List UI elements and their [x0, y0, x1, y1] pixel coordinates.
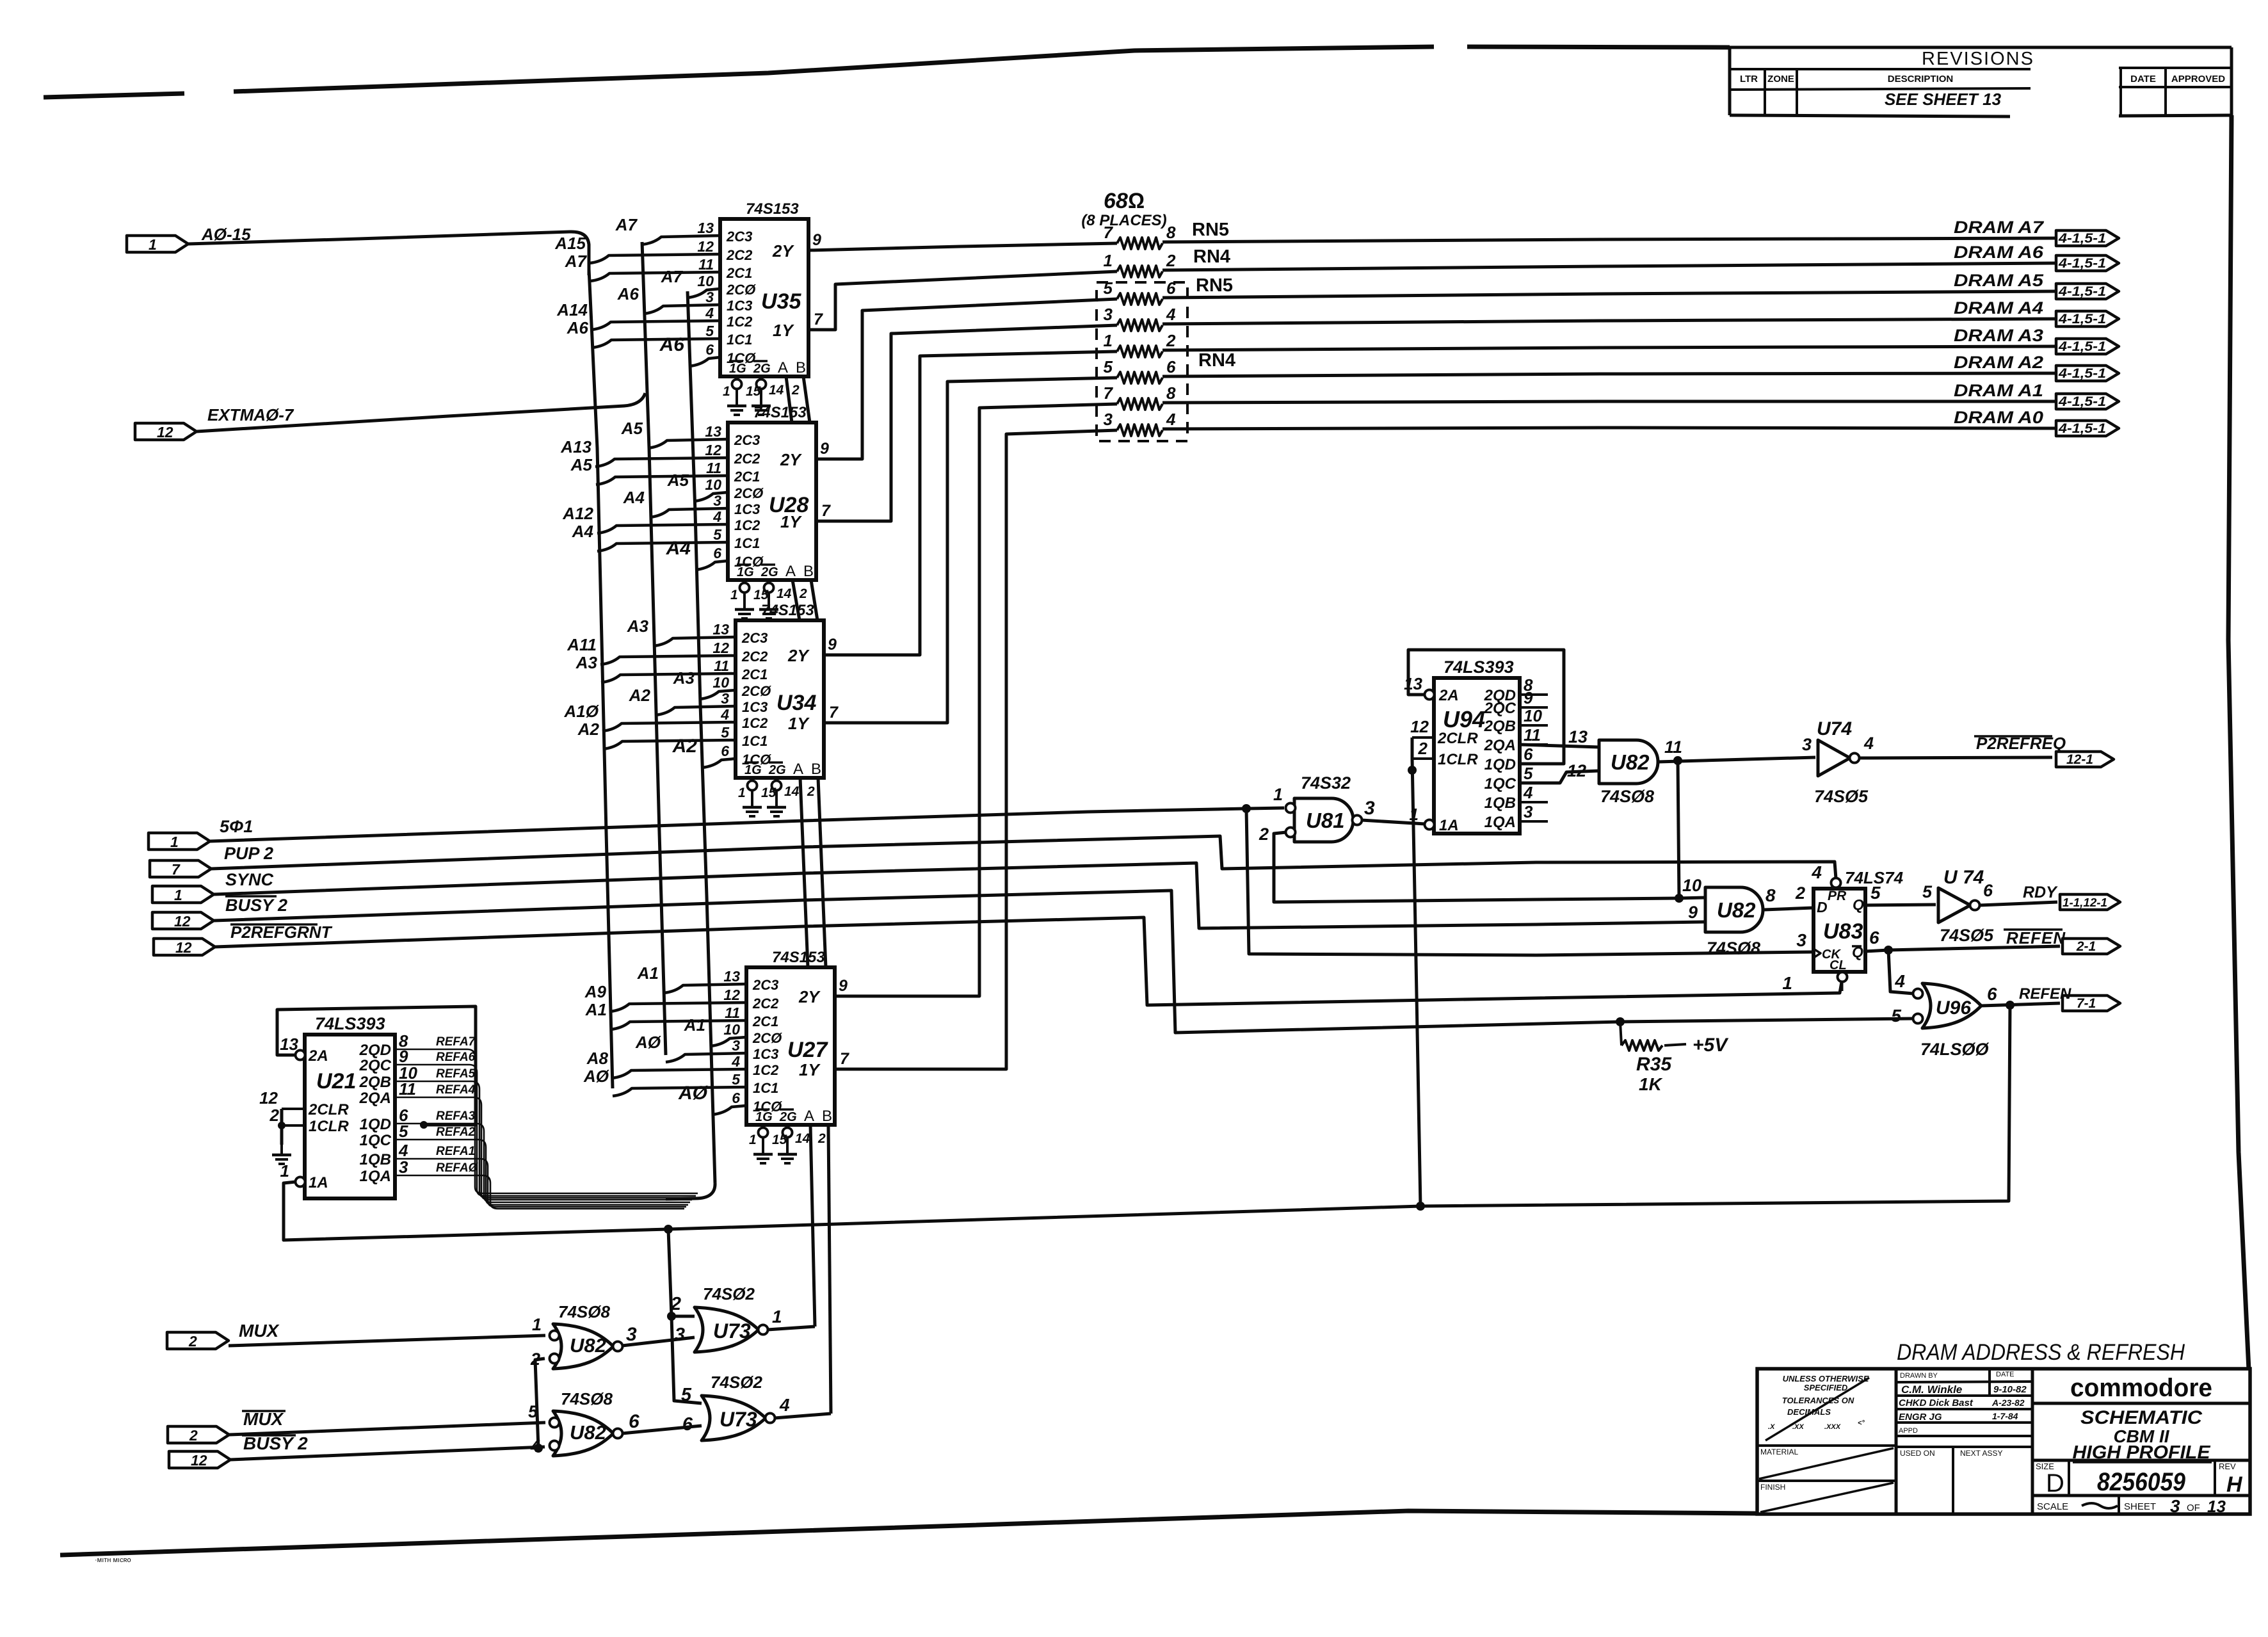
- svg-text:12: 12: [705, 442, 721, 458]
- wire MUXbar to U82 pin5: [229, 1423, 545, 1435]
- svg-text:B: B: [822, 1108, 832, 1125]
- svg-text:11: 11: [399, 1079, 416, 1099]
- svg-text:2C1: 2C1: [741, 666, 768, 682]
- svg-text:12: 12: [1410, 717, 1429, 736]
- svg-text:REFA1: REFA1: [436, 1145, 475, 1158]
- svg-text:3: 3: [675, 1325, 685, 1345]
- svg-text:A5: A5: [667, 471, 689, 490]
- U28 enable grounds: [743, 580, 746, 584]
- wire U74-2 out to RDY flag: [1980, 902, 2057, 905]
- wire mux output to RN row A6: [808, 271, 1117, 330]
- svg-text:MATERIAL: MATERIAL: [1760, 1447, 1798, 1456]
- svg-text:9: 9: [1524, 688, 1533, 707]
- connector BUSY2 input: [152, 912, 214, 929]
- svg-text:A9: A9: [584, 982, 607, 1001]
- svg-text:DRAM ADDRESS & REFRESH: DRAM ADDRESS & REFRESH: [1897, 1340, 2185, 1365]
- svg-text:B: B: [803, 563, 814, 580]
- svg-text:2G: 2G: [768, 763, 786, 777]
- output flag RDY 1-1,12-1: [2060, 894, 2120, 910]
- wire REFA bus merge: [666, 1183, 715, 1199]
- gate U73 74S02 first: [695, 1307, 759, 1352]
- svg-text:U21: U21: [316, 1069, 356, 1093]
- svg-text:1G: 1G: [744, 763, 762, 777]
- svg-text:A6: A6: [617, 284, 639, 303]
- svg-text:3: 3: [1802, 735, 1812, 754]
- svg-text:5: 5: [1104, 357, 1113, 376]
- U94 pin 3 1QA stub: [1520, 820, 1548, 823]
- svg-text:REFAØ: REFAØ: [436, 1161, 479, 1175]
- junction REFEN: [2006, 1001, 2015, 1010]
- svg-text:7: 7: [829, 704, 839, 722]
- svg-text:74SØ2: 74SØ2: [703, 1284, 755, 1303]
- svg-text:13: 13: [705, 423, 721, 440]
- svg-text:AØ: AØ: [635, 1033, 662, 1052]
- svg-text:6: 6: [682, 1414, 693, 1435]
- svg-text:(8 PLACES): (8 PLACES): [1081, 212, 1166, 229]
- inverter U74 74S05 first: [1818, 740, 1850, 776]
- svg-text:A7: A7: [661, 267, 684, 286]
- svg-text:6: 6: [1869, 928, 1879, 948]
- wire U94 cascade 1QD to 2A: [1408, 650, 1564, 764]
- svg-text:2G: 2G: [760, 565, 778, 579]
- svg-text:C.M. Winkle: C.M. Winkle: [1901, 1383, 1962, 1396]
- svg-text:74S153: 74S153: [746, 200, 799, 218]
- svg-text:REFA6: REFA6: [436, 1051, 476, 1064]
- svg-text:4-1,5-1: 4-1,5-1: [2058, 339, 2106, 354]
- svg-text:4-1,5-1: 4-1,5-1: [2058, 394, 2106, 409]
- svg-text:A1: A1: [684, 1015, 705, 1035]
- svg-text:H: H: [2226, 1472, 2243, 1497]
- resistor RN row A4 68ohm: [1117, 319, 1162, 331]
- svg-text:2G: 2G: [779, 1110, 797, 1124]
- svg-text:DRAM A4: DRAM A4: [1954, 298, 2043, 318]
- svg-text:.XXX: .XXX: [1824, 1423, 1841, 1431]
- svg-text:2QC: 2QC: [1484, 700, 1516, 717]
- svg-text:U82: U82: [570, 1421, 606, 1444]
- svg-text:12: 12: [157, 424, 173, 440]
- svg-text:9: 9: [1688, 903, 1698, 922]
- svg-text:5: 5: [732, 1071, 741, 1088]
- svg-text:3: 3: [721, 690, 729, 707]
- svg-text:13: 13: [2207, 1497, 2226, 1516]
- page top border: [44, 93, 184, 97]
- svg-text:6: 6: [1983, 881, 1993, 900]
- svg-text:3: 3: [1104, 410, 1113, 429]
- connector A0-15 input: [127, 236, 188, 252]
- wire U82-3 out to U73 pin3: [622, 1337, 695, 1346]
- junction BUSY2 branch: [534, 1444, 543, 1453]
- svg-text:13: 13: [1568, 727, 1588, 746]
- svg-text:U82: U82: [1611, 750, 1650, 774]
- svg-text:1C2: 1C2: [742, 715, 768, 731]
- svg-text:74S32: 74S32: [1301, 773, 1351, 793]
- svg-text:UNLESS OTHERWISE: UNLESS OTHERWISE: [1783, 1374, 1869, 1383]
- svg-text:5: 5: [705, 323, 714, 339]
- svg-text:1: 1: [749, 1133, 757, 1147]
- svg-text:2: 2: [188, 1333, 197, 1350]
- svg-text:1C1: 1C1: [753, 1080, 778, 1096]
- svg-text:6: 6: [1987, 984, 1997, 1004]
- wire U82-2 out to U83 D: [1764, 908, 1813, 910]
- svg-text:6: 6: [629, 1411, 639, 1432]
- wire U94 CLR to refresh net: [1411, 738, 1414, 759]
- svg-text:U73: U73: [713, 1319, 751, 1343]
- wire mux output to RN row A1: [835, 404, 1117, 996]
- svg-text:U83: U83: [1823, 919, 1863, 944]
- svg-text:D: D: [2046, 1469, 2064, 1497]
- gate U96 74LS00 NAND: [1922, 983, 1981, 1028]
- svg-text:1C2: 1C2: [734, 517, 760, 533]
- svg-text:2: 2: [1795, 883, 1805, 903]
- wire U96 out to REFEN flag: [1981, 1003, 2060, 1006]
- wire P2REFGRNT to U83 CL: [215, 917, 1842, 1005]
- wire RN row A7 to DRAM A7 flag: [1162, 238, 2056, 242]
- svg-text:2: 2: [1166, 251, 1176, 270]
- svg-text:A2: A2: [577, 720, 600, 739]
- svg-text:6: 6: [721, 743, 729, 759]
- gate U82 74S08 first: [1599, 740, 1658, 784]
- svg-text:9: 9: [820, 440, 829, 458]
- U21 pin13 2A: [296, 1051, 305, 1060]
- svg-text:ZONE: ZONE: [1767, 74, 1794, 85]
- junction U73 pin2: [667, 1312, 676, 1321]
- U94 pin 11 2QA stub: [1520, 743, 1548, 746]
- wire U94 1QC to U82 pin12: [1520, 771, 1599, 783]
- svg-text:1C3: 1C3: [753, 1046, 778, 1062]
- svg-text:3: 3: [1364, 798, 1375, 819]
- svg-text:A3: A3: [627, 617, 649, 636]
- svg-text:REV: REV: [2219, 1462, 2236, 1471]
- svg-text:B: B: [796, 359, 806, 376]
- wire BUSY2 to U96 pin5: [214, 891, 1913, 1033]
- gate U81 74S32: [1294, 798, 1353, 842]
- svg-text:2Y: 2Y: [787, 646, 810, 665]
- svg-text:DRAM A3: DRAM A3: [1954, 326, 2043, 345]
- svg-text:1: 1: [1273, 785, 1283, 804]
- wire A0-15 bus to vertical: [188, 232, 589, 275]
- inverter U74 74S05 second: [1938, 888, 1970, 923]
- svg-text:1C3: 1C3: [742, 699, 768, 715]
- svg-text:A6: A6: [567, 318, 589, 337]
- size D and document number 8256059: [2032, 1494, 2250, 1497]
- svg-text:A: A: [804, 1108, 814, 1125]
- svg-text:13: 13: [712, 621, 729, 638]
- svg-text:·мıтн мıсʀо: ·мıтн мıсʀо: [95, 1556, 131, 1564]
- wire RN row A1 to DRAM A1 flag: [1162, 401, 2056, 403]
- wire RN row A3 to DRAM A3 flag: [1162, 346, 2056, 350]
- svg-text:2C1: 2C1: [752, 1013, 778, 1029]
- connector SYNC input: [152, 886, 214, 903]
- svg-text:2QA: 2QA: [359, 1090, 391, 1107]
- svg-text:4-1,5-1: 4-1,5-1: [2058, 366, 2106, 381]
- svg-text:1QC: 1QC: [360, 1132, 392, 1149]
- svg-text:A: A: [793, 761, 803, 778]
- wire U83 CL entry: [1840, 981, 1844, 991]
- junction U94 CLR: [1408, 766, 1417, 775]
- svg-text:2CLR: 2CLR: [308, 1101, 349, 1118]
- svg-text:+5V: +5V: [1693, 1035, 1729, 1056]
- svg-text:B: B: [811, 761, 821, 778]
- wire 5phi1 to U81 pin1: [1246, 808, 1284, 809]
- wire mux output to RN row A4: [816, 325, 1117, 521]
- svg-text:2C2: 2C2: [741, 649, 768, 665]
- svg-text:A5: A5: [621, 419, 643, 438]
- svg-text:REVISIONS: REVISIONS: [1922, 49, 2034, 69]
- gate U73 74S02 second: [702, 1396, 766, 1440]
- svg-text:1Y: 1Y: [773, 321, 794, 340]
- wire select B U27 to U73 output: [828, 1125, 831, 1414]
- svg-text:RN5: RN5: [1192, 220, 1229, 240]
- svg-text:A13: A13: [560, 437, 591, 456]
- svg-text:5Φ1: 5Φ1: [220, 817, 253, 836]
- wire U82 out feedback drop: [1678, 761, 1679, 898]
- svg-text:1: 1: [1104, 251, 1113, 270]
- svg-text:4: 4: [705, 305, 714, 321]
- svg-text:1: 1: [730, 588, 738, 602]
- wire U82-3 pin2 from BUSY2: [535, 1359, 545, 1448]
- svg-text:74S153: 74S153: [761, 602, 814, 619]
- resistor RN row A1 68ohm: [1117, 398, 1162, 410]
- svg-text:13: 13: [1404, 674, 1422, 693]
- svg-text:5: 5: [1891, 1006, 1901, 1026]
- svg-text:8: 8: [1166, 223, 1176, 242]
- svg-text:CHKD Dick Bast: CHKD Dick Bast: [1899, 1398, 1974, 1408]
- svg-text:1Y: 1Y: [799, 1060, 821, 1079]
- svg-text:11: 11: [714, 657, 729, 674]
- svg-text:1G: 1G: [729, 362, 746, 376]
- svg-text:1A: 1A: [1439, 817, 1459, 834]
- RN dashed outline: [1097, 282, 1187, 441]
- U28 input stubs from REFA bus: [694, 492, 728, 501]
- wire U73-1 out to U27 A: [768, 1327, 815, 1330]
- bus vertical REFA: [688, 291, 715, 1183]
- svg-text:<°: <°: [1858, 1419, 1865, 1427]
- svg-text:ENGR JG: ENGR JG: [1899, 1412, 1942, 1423]
- U83 PR bubble pin4: [1831, 878, 1841, 888]
- wire U74 out to P2REFREQ flag: [1860, 757, 2052, 758]
- svg-text:DATE: DATE: [2130, 74, 2156, 85]
- svg-text:2CØ: 2CØ: [734, 485, 764, 501]
- svg-text:10: 10: [712, 674, 729, 691]
- svg-text:5: 5: [721, 724, 730, 741]
- svg-text:1: 1: [723, 384, 730, 399]
- connector MUXbar input: [168, 1426, 229, 1443]
- svg-text:1: 1: [149, 236, 157, 253]
- svg-text:SEE SHEET 13: SEE SHEET 13: [1885, 90, 2002, 109]
- svg-text:1G: 1G: [737, 565, 754, 579]
- svg-text:SCHEMATIC: SCHEMATIC: [2080, 1407, 2203, 1428]
- output flag REFENbar 2-1: [2063, 939, 2120, 954]
- resistor RN row A5 68ohm: [1117, 293, 1162, 305]
- svg-text:SCALE: SCALE: [2037, 1501, 2068, 1512]
- svg-text:5: 5: [681, 1385, 692, 1405]
- svg-text:4-1,5-1: 4-1,5-1: [2058, 312, 2106, 327]
- svg-text:4: 4: [720, 706, 729, 723]
- wire Qbar to U96 pin4: [1888, 950, 1913, 994]
- svg-text:R35: R35: [1636, 1054, 1672, 1075]
- U35 input stubs from A bus: [590, 254, 720, 263]
- output flag P2REFREQ 12-1: [2056, 752, 2114, 767]
- svg-text:2G: 2G: [753, 362, 771, 376]
- junction U82 out: [1673, 756, 1682, 765]
- svg-text:4: 4: [1894, 971, 1905, 991]
- svg-text:Q: Q: [1853, 896, 1864, 913]
- svg-text:10: 10: [705, 476, 721, 493]
- svg-text:3: 3: [626, 1324, 637, 1345]
- wire select B U28-U34: [811, 580, 817, 620]
- svg-text:2QD: 2QD: [359, 1042, 391, 1059]
- gate U82 74S08 third: [553, 1324, 613, 1369]
- wire Qbar to REFENbar flag: [1888, 946, 2060, 950]
- svg-text:DRAM A6: DRAM A6: [1954, 243, 2044, 262]
- svg-text:1Y: 1Y: [788, 714, 810, 733]
- svg-text:2CLR: 2CLR: [1437, 730, 1478, 747]
- svg-text:74S153: 74S153: [772, 949, 825, 966]
- svg-text:1QA: 1QA: [360, 1168, 391, 1185]
- svg-text:DATE: DATE: [1996, 1371, 2015, 1378]
- svg-text:DRAM A7: DRAM A7: [1954, 218, 2045, 237]
- gate U82 74S08 fourth: [553, 1411, 613, 1456]
- wire U82-4 out to U73-2 pin6: [622, 1426, 702, 1433]
- svg-text:6: 6: [713, 545, 721, 561]
- svg-text:11: 11: [706, 460, 721, 476]
- wire RN row A0 to DRAM A0 flag: [1162, 428, 2056, 429]
- U35 input stubs from REFA bus: [688, 289, 720, 298]
- wire RN row A6 to DRAM A6 flag: [1162, 263, 2056, 270]
- svg-text:DRAM A5: DRAM A5: [1954, 271, 2044, 290]
- svg-text:10: 10: [1682, 876, 1701, 895]
- U94 pin 13 2A input: [1425, 690, 1435, 700]
- svg-text:7: 7: [821, 502, 831, 520]
- junction U21 1QD: [420, 1121, 428, 1129]
- svg-text:5: 5: [528, 1402, 538, 1421]
- svg-text:74SØ8: 74SØ8: [1600, 787, 1654, 806]
- wire REFEN feedback down-left: [284, 1005, 2010, 1240]
- connector P2REFGRNT input: [154, 939, 215, 955]
- svg-text:12: 12: [259, 1088, 278, 1108]
- svg-text:11: 11: [1524, 725, 1541, 745]
- svg-text:A1: A1: [637, 964, 659, 983]
- svg-text:9: 9: [839, 977, 848, 995]
- svg-text:U27: U27: [787, 1038, 828, 1062]
- wire U82 out to U74: [1658, 757, 1815, 762]
- svg-text:D: D: [1817, 899, 1828, 915]
- U28 input stubs from A bus: [595, 458, 728, 467]
- svg-text:1C3: 1C3: [727, 298, 752, 314]
- U27 input stubs from REFA bus: [711, 1037, 746, 1046]
- svg-text:2: 2: [1418, 739, 1428, 758]
- U94 pin 12 2CLR: [1412, 736, 1434, 739]
- U83 CL bubble pin1: [1838, 972, 1847, 982]
- svg-text:15: 15: [761, 786, 776, 800]
- svg-text:11: 11: [725, 1004, 740, 1021]
- svg-text:REFA2: REFA2: [436, 1125, 476, 1139]
- wire RN row A5 to DRAM A5 flag: [1162, 291, 2056, 298]
- svg-text:6: 6: [1166, 357, 1176, 376]
- counter U94 74LS393: [1434, 678, 1520, 834]
- svg-text:2: 2: [1259, 825, 1269, 844]
- svg-text:2: 2: [1166, 331, 1176, 350]
- svg-text:A: A: [785, 563, 796, 580]
- svg-text:U 74: U 74: [1943, 867, 1984, 888]
- svg-text:RN5: RN5: [1196, 275, 1233, 296]
- svg-text:4-1,5-1: 4-1,5-1: [2058, 231, 2106, 246]
- svg-text:A-23-82: A-23-82: [1991, 1398, 2025, 1408]
- svg-text:4: 4: [1811, 862, 1822, 882]
- svg-text:3: 3: [1796, 930, 1806, 950]
- svg-text:DRAM A1: DRAM A1: [1954, 381, 2043, 400]
- svg-text:DRAM A2: DRAM A2: [1954, 353, 2043, 372]
- svg-text:2QB: 2QB: [1484, 718, 1516, 735]
- svg-text:A15: A15: [554, 234, 586, 253]
- wire MUX to U82 pin1: [229, 1335, 545, 1346]
- svg-text:1QB: 1QB: [1484, 794, 1516, 812]
- svg-text:4-1,5-1: 4-1,5-1: [2058, 256, 2106, 271]
- connector EXTMA0-7 input: [135, 423, 197, 440]
- svg-text:2CØ: 2CØ: [741, 683, 771, 699]
- svg-text:5: 5: [1524, 764, 1533, 783]
- wire RN row A4 to DRAM A4 flag: [1162, 319, 2056, 324]
- wire select A U27 to U73 output: [810, 1125, 815, 1327]
- svg-text:REFA4: REFA4: [436, 1083, 476, 1097]
- svg-text:U82: U82: [1717, 898, 1756, 922]
- svg-text:1C3: 1C3: [734, 501, 760, 517]
- svg-text:4: 4: [712, 508, 721, 525]
- svg-text:3: 3: [2170, 1496, 2180, 1516]
- svg-text:2QA: 2QA: [1484, 737, 1516, 754]
- svg-text:8256059: 8256059: [2097, 1468, 2186, 1496]
- svg-text:2A: 2A: [1438, 687, 1459, 704]
- svg-text:12: 12: [697, 238, 714, 255]
- svg-text:10: 10: [697, 273, 714, 289]
- counter U21 74LS393: [305, 1035, 395, 1198]
- svg-text:74LS393: 74LS393: [1444, 657, 1514, 677]
- U35 enable grounds: [736, 376, 738, 380]
- svg-text:2CØ: 2CØ: [726, 282, 756, 298]
- U94 pin 9 2QC stub: [1520, 706, 1548, 709]
- svg-text:2Y: 2Y: [798, 987, 821, 1006]
- svg-text:2A: 2A: [308, 1047, 328, 1065]
- svg-text:2C2: 2C2: [734, 451, 760, 467]
- svg-text:12: 12: [175, 939, 192, 956]
- svg-text:1: 1: [532, 1315, 542, 1334]
- junction feedback to pin10 line: [1675, 894, 1684, 903]
- wire U81 out to U94 1A: [1362, 820, 1425, 824]
- svg-text:U35: U35: [761, 289, 801, 314]
- title block drawn-by cells: [1896, 1382, 2032, 1382]
- wire U94 2QA to U82 pin13: [1520, 745, 1599, 747]
- svg-text:A7: A7: [565, 252, 588, 271]
- svg-text:APPROVED: APPROVED: [2171, 74, 2225, 85]
- svg-text:AØ: AØ: [583, 1067, 610, 1086]
- svg-text:6: 6: [1524, 745, 1533, 764]
- svg-text:74LS393: 74LS393: [315, 1014, 385, 1033]
- svg-text:.X: .X: [1768, 1423, 1775, 1431]
- U35 input stubs from EXTMA bus: [642, 236, 720, 245]
- U21 pin1 1A: [296, 1177, 305, 1187]
- U34 enable grounds: [751, 778, 753, 782]
- svg-text:2: 2: [791, 383, 800, 398]
- svg-text:1C2: 1C2: [753, 1062, 779, 1078]
- svg-text:3: 3: [399, 1157, 408, 1177]
- U94 pin 1 1A input: [1425, 820, 1435, 830]
- resistor RN row A7 68ohm: [1117, 238, 1162, 249]
- page right border: [2228, 115, 2249, 1370]
- svg-text:U94: U94: [1443, 706, 1485, 732]
- svg-text:2: 2: [807, 784, 815, 799]
- U34 input stubs from A bus: [600, 656, 736, 665]
- svg-text:1QB: 1QB: [360, 1151, 391, 1168]
